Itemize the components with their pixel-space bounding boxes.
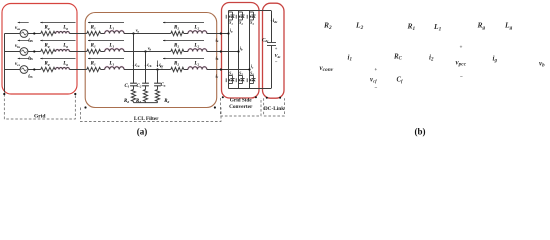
svg-text:Vdc: Vdc xyxy=(275,53,282,59)
svg-text:R1: R1 xyxy=(91,62,96,67)
svg-text:LCL Filter: LCL Filter xyxy=(134,116,159,122)
svg-text:ics: ics xyxy=(28,74,33,79)
svg-text:C2: C2 xyxy=(137,84,142,89)
svg-text:DC-Link: DC-Link xyxy=(264,106,284,112)
svg-text:L1: L1 xyxy=(108,44,114,49)
svg-text:va: va xyxy=(136,28,140,34)
svg-text:ib: ib xyxy=(240,46,243,52)
svg-text:C1: C1 xyxy=(124,84,129,89)
svg-text:R1: R1 xyxy=(91,44,96,49)
svg-text:R2: R2 xyxy=(174,44,179,49)
svg-text:ica: ica xyxy=(135,62,140,68)
svg-text:icb: icb xyxy=(147,62,152,68)
svg-text:ias: ias xyxy=(28,38,33,43)
svg-text:i2: i2 xyxy=(429,54,434,63)
svg-text:Rg: Rg xyxy=(45,62,50,67)
svg-text:R1: R1 xyxy=(91,26,96,31)
svg-text:Converter: Converter xyxy=(229,104,253,110)
svg-text:i1: i1 xyxy=(348,54,352,63)
svg-text:ic: ic xyxy=(251,64,254,70)
svg-text:R1: R1 xyxy=(407,22,416,32)
svg-text:vb: vb xyxy=(148,46,152,52)
svg-text:(a): (a) xyxy=(137,126,148,136)
svg-text:R2: R2 xyxy=(323,21,332,31)
svg-text:Rd: Rd xyxy=(164,99,169,104)
svg-text:Lg: Lg xyxy=(62,44,68,49)
svg-text:L2: L2 xyxy=(355,21,364,31)
svg-text:vb: vb xyxy=(539,60,545,69)
svg-text:S1: S1 xyxy=(229,20,233,26)
svg-text:idc: idc xyxy=(273,19,278,24)
svg-text:Rd: Rd xyxy=(124,99,129,104)
svg-text:L2: L2 xyxy=(193,25,199,30)
svg-text:Rg: Rg xyxy=(477,21,486,31)
svg-text:+: + xyxy=(460,45,463,51)
svg-text:ia: ia xyxy=(230,28,233,34)
svg-text:−: − xyxy=(275,60,278,65)
svg-text:L1: L1 xyxy=(108,62,114,67)
svg-text:C3: C3 xyxy=(161,83,166,88)
svg-text:vconv: vconv xyxy=(320,64,334,73)
svg-text:−: − xyxy=(375,85,378,91)
svg-text:Lg: Lg xyxy=(62,26,68,31)
svg-text:Rg: Rg xyxy=(45,26,50,31)
svg-text:(b): (b) xyxy=(415,126,426,136)
svg-text:vcs: vcs xyxy=(15,62,21,67)
svg-text:+: + xyxy=(374,67,377,73)
svg-text:R2: R2 xyxy=(174,62,179,67)
svg-text:RC: RC xyxy=(393,53,403,62)
svg-text:vas: vas xyxy=(15,26,21,31)
svg-text:Cdc: Cdc xyxy=(262,38,269,43)
svg-text:Lg: Lg xyxy=(504,21,513,31)
svg-text:−: − xyxy=(460,74,463,80)
svg-text:vcf: vcf xyxy=(370,77,377,84)
svg-text:S3: S3 xyxy=(250,20,254,26)
svg-text:Grid: Grid xyxy=(34,113,46,119)
svg-text:Rg: Rg xyxy=(45,44,50,49)
svg-text:ibs: ibs xyxy=(28,56,33,61)
svg-text:L1: L1 xyxy=(433,22,442,32)
svg-text:Rd: Rd xyxy=(136,99,141,104)
svg-text:L1: L1 xyxy=(108,26,114,31)
svg-text:+: + xyxy=(275,46,278,51)
svg-text:vbs: vbs xyxy=(15,44,21,49)
svg-text:Cf: Cf xyxy=(397,77,404,84)
svg-text:Lg: Lg xyxy=(62,62,68,67)
svg-text:ig: ig xyxy=(493,55,498,64)
svg-text:Grid Side: Grid Side xyxy=(230,98,253,104)
svg-text:S2: S2 xyxy=(239,20,243,26)
svg-text:L2: L2 xyxy=(193,61,199,66)
svg-text:vpcc: vpcc xyxy=(456,59,467,68)
svg-text:L2: L2 xyxy=(193,43,199,48)
svg-text:R2: R2 xyxy=(174,26,179,31)
